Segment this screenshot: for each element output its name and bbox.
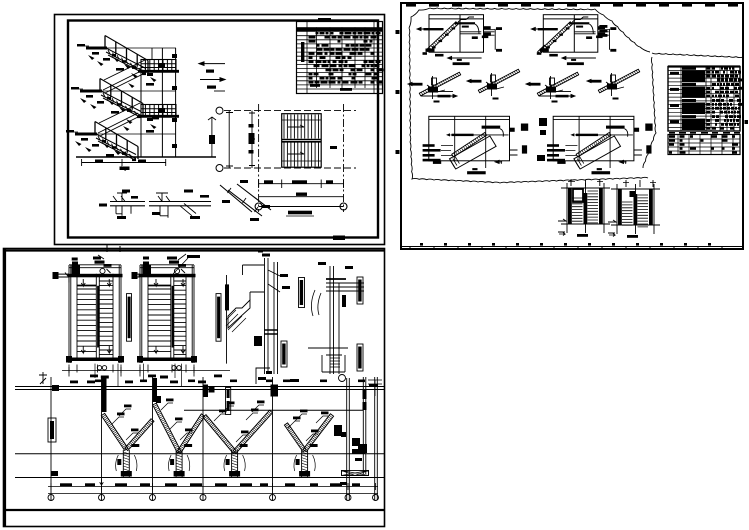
- sheet C outer border: [4, 249, 385, 527]
- plan C1: [69, 265, 121, 268]
- annotation marks: [88, 55, 95, 60]
- V3 left leg: [203, 415, 236, 454]
- right cluster X-brace beam: [342, 471, 369, 476]
- sheet A caption: [333, 236, 345, 241]
- section floor lines: [15, 387, 384, 390]
- landing 2 railing: [141, 105, 176, 117]
- detail A2: [149, 202, 211, 206]
- dim text row above section: [70, 381, 78, 384]
- detail B8: [553, 116, 634, 161]
- floor bar 3: [75, 133, 97, 136]
- sheet B top ruler: [406, 4, 416, 7]
- section small label box near col4: [226, 388, 231, 415]
- table B2: [668, 135, 740, 155]
- detail B2 extra right bars: [599, 25, 607, 28]
- sheet B bottom ruler numbers: [420, 243, 423, 246]
- plan A stair box: [282, 114, 322, 168]
- plan A arrows: [288, 125, 304, 154]
- blobs between bottom details: [539, 118, 547, 126]
- col2 bottom arrow: [100, 479, 104, 485]
- plan C2: [140, 265, 194, 268]
- table B1 content: [668, 65, 740, 67]
- detail B1: [429, 15, 484, 53]
- detail C-E1 verticals: [265, 258, 278, 374]
- table B1 frame: [668, 67, 740, 132]
- plan C1 label strip: [127, 294, 132, 342]
- detail C-E2 labels: [357, 277, 363, 304]
- plan C2 label strip: [216, 294, 221, 342]
- V1 right leg: [125, 419, 154, 451]
- wall lines: [141, 48, 176, 157]
- table A frame: [297, 22, 383, 94]
- post V1: [123, 450, 129, 477]
- column heads: [102, 378, 107, 412]
- table A content: [307, 22, 374, 94]
- detail C-E1 steps: [228, 300, 250, 328]
- sheet C inner border: [4, 249, 384, 528]
- post V4: [302, 450, 308, 477]
- V4 left leg: [284, 423, 306, 452]
- sheet A inner border: [68, 21, 378, 238]
- detail C-E1 labels: [299, 278, 305, 308]
- plan C2 right dim: [226, 275, 228, 364]
- plans dim line: [62, 367, 230, 373]
- ground line: [76, 156, 216, 158]
- V3 right leg: [233, 410, 272, 453]
- right cluster blobs: [352, 438, 360, 446]
- marks above sheet C border: [107, 244, 120, 252]
- detail C-E1 leaders: [268, 270, 280, 292]
- plan A bottom axis line: [259, 206, 344, 208]
- plan A left dims: [226, 111, 255, 168]
- post V3: [232, 450, 238, 477]
- right cluster verticals: [347, 377, 378, 500]
- plan dim extensions: [95, 364, 182, 386]
- wall marks: [172, 54, 177, 58]
- detail B3: [419, 72, 460, 96]
- V2 left leg: [153, 403, 181, 453]
- plan A axis bubbles: [216, 107, 223, 114]
- detail A1: [110, 202, 145, 206]
- flight 1: [106, 48, 146, 75]
- plan A axis lines: [258, 104, 260, 212]
- bottom dim line 2: [48, 492, 378, 494]
- revision cloud: [409, 8, 650, 142]
- detail C-E1 top hook: [243, 265, 265, 300]
- stair section floor levels: [96, 48, 176, 134]
- flight 3: [96, 134, 136, 161]
- detail B5: [537, 72, 578, 96]
- section columns: [51, 377, 273, 500]
- detail B2 band foot extension: [538, 45, 547, 54]
- dashes between tables: [669, 132, 740, 134]
- detail B4: [478, 69, 519, 93]
- plan B2: [611, 189, 660, 225]
- extra col head blobs: [209, 386, 215, 393]
- V1 left leg: [101, 413, 128, 450]
- border letters: [396, 30, 400, 34]
- plan C1 left hook: [65, 273, 69, 283]
- post V2: [176, 450, 182, 477]
- plan B1: [561, 188, 610, 224]
- detail B7: [429, 116, 510, 161]
- legend arrows: [199, 62, 225, 66]
- verticals above small plans: [571, 179, 653, 187]
- floor bar 2: [80, 90, 102, 93]
- section top small marks: [95, 380, 102, 383]
- leader annotations section: [112, 417, 124, 424]
- flight 2: [101, 91, 141, 118]
- right dim vertical: [208, 117, 216, 157]
- V2 right leg: [177, 414, 204, 453]
- left label box: [48, 418, 56, 442]
- detail B6: [598, 69, 639, 93]
- detail B2: [543, 15, 598, 53]
- sheet B bottom ruler: [401, 247, 743, 250]
- sheet B border: [401, 3, 743, 249]
- detail C-E2: [330, 266, 339, 374]
- plan C top annotations: [72, 258, 78, 261]
- sheet A outer border: [55, 15, 385, 245]
- plan A title: [288, 211, 312, 215]
- V4 right leg: [303, 414, 334, 452]
- return flight 2: [98, 103, 140, 136]
- landing 1 railing: [141, 60, 176, 72]
- floor bar 1: [86, 47, 107, 50]
- bottom dim line 1: [48, 483, 378, 490]
- section bottom dim: [82, 159, 166, 166]
- return flight 1: [103, 60, 145, 93]
- plan C2 diagonal leader: [173, 258, 188, 274]
- detail A3 railing: [220, 184, 271, 216]
- plan A bottom dims: [259, 180, 344, 189]
